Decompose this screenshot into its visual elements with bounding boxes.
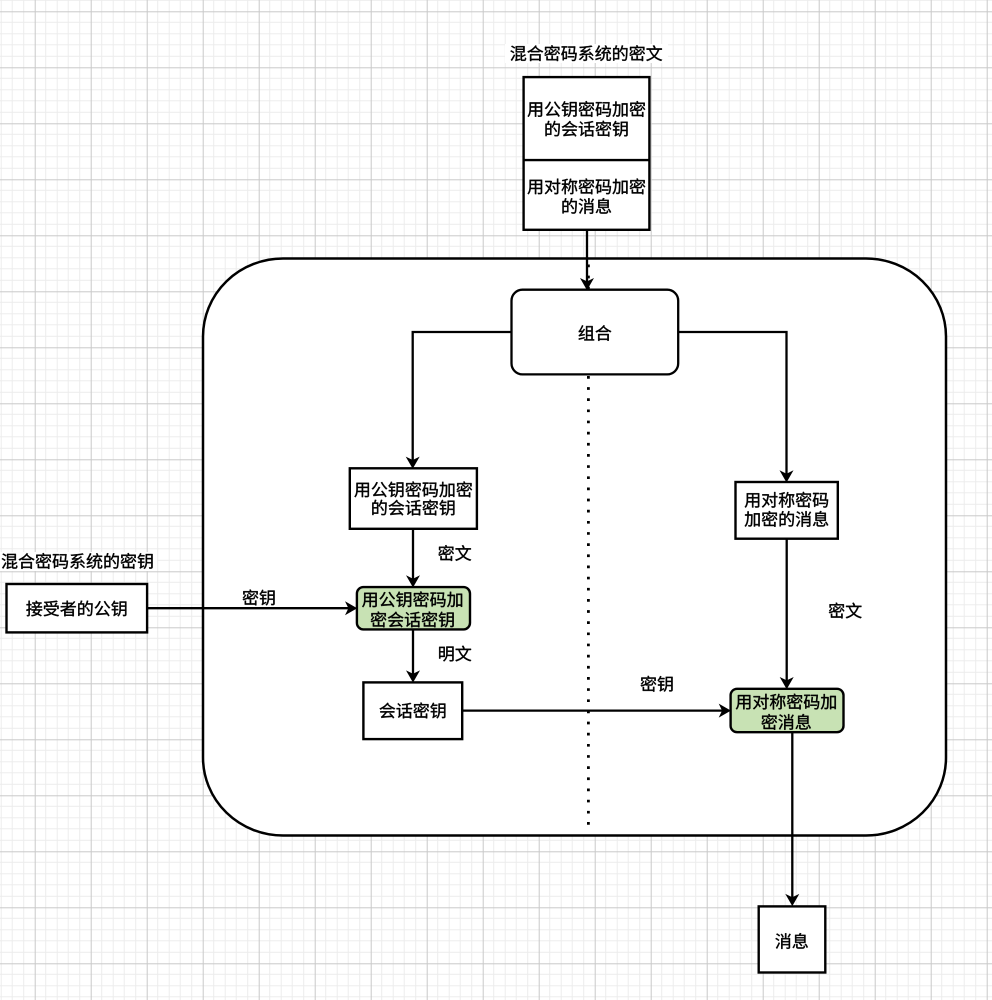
dotted separator line xyxy=(587,265,590,832)
label 混合密码系统的密文 xyxy=(505,44,668,63)
wire public key to decrypt-session-key with arrowhead xyxy=(147,601,357,615)
label 密文 (left) xyxy=(438,545,471,561)
box 接受者的公钥 xyxy=(7,584,148,632)
box 消息 xyxy=(759,906,826,972)
green box 用对称密码加密消息 (decrypt message) xyxy=(731,689,844,732)
wire right box to decrypt-message with arrowhead xyxy=(780,539,794,690)
container: decryption system rounded box xyxy=(203,259,946,836)
box 用对称密码加密的消息 xyxy=(736,482,838,539)
wire decrypt-message to 消息 with arrowhead xyxy=(785,732,799,906)
green box 用公钥密码加密会话密钥 (decrypt session key) xyxy=(357,587,470,629)
wire 组合 to right message box with arrowhead xyxy=(678,332,793,483)
box 会话密钥 xyxy=(363,682,462,739)
wire left box to decrypt-session-key with arrowhead xyxy=(406,529,420,588)
label 明文 xyxy=(439,646,471,662)
box ciphertext of hybrid cryptosystem (two cells) xyxy=(524,77,650,230)
wire top box to 组合 with arrowhead xyxy=(580,230,594,290)
label 密钥 (left) xyxy=(243,590,275,606)
label 密文 (right) xyxy=(829,603,862,619)
label 混合密码系统的密钥 xyxy=(0,552,157,571)
wire 会话密钥 to decrypt-message with arrowhead xyxy=(462,704,731,718)
wire decrypt-session-key to 会话密钥 with arrowhead xyxy=(406,629,420,682)
box 组合 xyxy=(512,290,679,375)
label 密钥 (right) xyxy=(641,676,673,692)
wire 组合 to left session-key box with arrowhead xyxy=(406,332,512,469)
box 用公钥密码加密的会话密钥 xyxy=(350,468,477,529)
